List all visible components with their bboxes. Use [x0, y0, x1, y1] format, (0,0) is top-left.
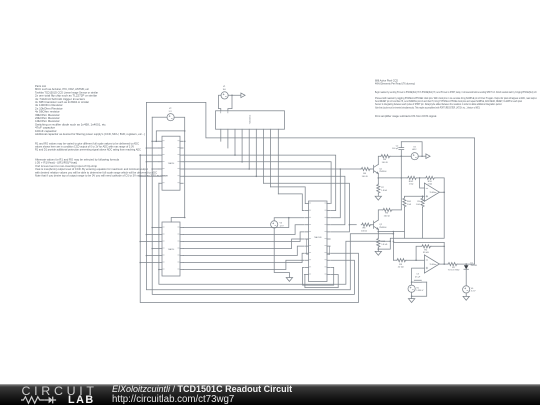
junction V3 rail — [288, 217, 290, 219]
wire bus phase 1 — [183, 155, 336, 211]
svg-text:100 Ω: 100 Ω — [361, 231, 367, 233]
transistor Q2 2N3904 — [371, 220, 378, 229]
wire R8 to Q2 base — [370, 224, 372, 226]
wires IC2 left pins to left bus verticals — [140, 228, 159, 270]
junction non-inverting tap R9 — [422, 196, 424, 198]
svg-text:1.986 V: 1.986 V — [416, 290, 424, 292]
voltage source V6 (3.3V clamp) — [463, 286, 470, 293]
wire hold box top link — [393, 241, 444, 243]
wire feedback riser 39k — [416, 246, 421, 260]
svg-text:3.3 V: 3.3 V — [471, 291, 476, 293]
svg-text:1 kΩ: 1 kΩ — [407, 204, 412, 206]
op-amp U5 TL082 — [424, 183, 439, 201]
CCD bottom pin wires — [221, 129, 278, 194]
svg-text:74AC240: 74AC240 — [314, 236, 322, 239]
note text: first amplifier stage — [375, 115, 437, 118]
svg-text:100 Ω: 100 Ω — [384, 216, 390, 218]
ground for R12 — [375, 251, 381, 255]
voltage probe V4 (ADC) — [411, 153, 418, 160]
svg-text:SH: SH — [223, 89, 226, 91]
wire R7 to ground — [377, 194, 379, 197]
wire V2 left to vertical bus — [152, 116, 167, 118]
svg-text:R1 and D1 provide additional p: R1 and D1 provide additional protection … — [35, 149, 141, 152]
svg-text:100 Ω: 100 Ω — [382, 162, 388, 164]
svg-text:Additional capacitor as desire: Additional capacitor as desired for filt… — [35, 133, 145, 136]
wire RG1 bottom lead — [403, 207, 405, 238]
voltage source V1 (SH clock) — [221, 92, 228, 99]
wire V3 bottom to ground — [274, 228, 289, 278]
wire 12V rail loop W1 — [146, 102, 474, 264]
note text: R1/RG values — [35, 142, 141, 151]
port flag SH — [232, 93, 245, 98]
svg-text:RG2: RG2 — [409, 181, 414, 183]
under-IC rail 1 — [303, 267, 334, 285]
svg-text:5 V: 5 V — [169, 111, 173, 113]
resistor R8 100 Ohm (Q2 base) — [361, 223, 371, 226]
svg-text:TCD1501C: TCD1501C — [249, 114, 251, 124]
hex inverter U3 74AC14 — [162, 222, 180, 276]
svg-text:V3: V3 — [280, 223, 283, 225]
wire riser to inverting input — [420, 178, 425, 188]
svg-text:C3: C3 — [416, 274, 419, 276]
wire R1 to clamp node — [457, 263, 466, 265]
resistor R4 100 Ohm (Q1 collector) — [381, 155, 391, 158]
note text: alternate values formula — [35, 159, 169, 178]
junctions CCD pins to buses — [234, 154, 236, 156]
wire RG2 to R10 — [417, 177, 425, 179]
ground for V5 — [408, 299, 414, 303]
junction inverting input tap — [419, 177, 421, 179]
wire V4 to ADC flag — [418, 155, 426, 157]
wire Q1 emitter — [377, 174, 379, 184]
wire R9 riser top — [422, 196, 424, 197]
wire R4 to ADC node — [390, 155, 411, 157]
ground for R7 — [375, 196, 381, 200]
resistor R9 1k — [421, 198, 424, 208]
wire op-amp1 output and down-link — [378, 192, 444, 249]
svg-text:R9: R9 — [417, 201, 420, 203]
wire bus sample — [183, 169, 361, 218]
wire bus output stage link — [278, 194, 304, 211]
junction feedback tap op-amp2 — [415, 259, 417, 261]
svg-text:V2: V2 — [169, 108, 172, 110]
svg-text:V1: V1 — [223, 86, 226, 88]
svg-text:100 µF: 100 µF — [392, 148, 399, 150]
svg-text:RG1: RG1 — [407, 201, 412, 203]
resistor R10 1k (feedback) — [425, 176, 435, 179]
junction R12 bottom tap — [378, 248, 380, 250]
wire V2 right feed to inverter supplies — [156, 117, 184, 222]
resistor R3 100 Ohm (Q2 collector) — [383, 208, 393, 211]
svg-text:C2: C2 — [396, 145, 399, 147]
svg-text:1.8 kΩ: 1.8 kΩ — [381, 190, 387, 192]
junction loop B to sample-hold box — [393, 233, 395, 235]
svg-text:ADC: ADC — [412, 148, 417, 151]
svg-text:2N3904: 2N3904 — [379, 227, 387, 229]
svg-text:46% Elements Per Read (76 dumm: 46% Elements Per Read (76 dummy) — [375, 83, 415, 86]
svg-text:R5: R5 — [399, 264, 403, 266]
capacitor C3 47uF — [412, 280, 427, 282]
wire C2 loop to V4 output — [401, 142, 422, 156]
wire R3 to sample node — [392, 209, 401, 211]
svg-text:V4: V4 — [413, 146, 416, 148]
wire emitter to RG2 — [378, 177, 407, 179]
junction op-amp2 output — [443, 263, 445, 265]
svg-text:TO 1/3 TBD: TO 1/3 TBD — [448, 270, 460, 272]
svg-text:39 kΩ: 39 kΩ — [423, 252, 429, 254]
svg-text:74AC14: 74AC14 — [168, 162, 175, 165]
svg-text:R4: R4 — [383, 159, 387, 161]
CCD sensor chip U1 TCD1501C — [216, 111, 285, 129]
wire bus reset — [183, 176, 345, 225]
note text: CCD pixel counts — [375, 79, 415, 85]
svg-text:2N3904: 2N3904 — [379, 171, 387, 173]
resistor R1 protection — [448, 263, 458, 266]
wire op-amp2 non-inverting to V5 node — [412, 268, 425, 285]
svg-text:R6: R6 — [363, 173, 367, 175]
wire R6 to Q1 base — [370, 168, 373, 170]
resistor R6 100 Ohm (Q1 base) — [361, 167, 371, 170]
wire V6 to ground — [465, 293, 467, 296]
wire R5 input line — [393, 259, 396, 261]
junction R2 at output riser — [443, 246, 445, 248]
svg-text:R3: R3 — [385, 213, 389, 215]
svg-text:R8: R8 — [363, 228, 367, 230]
svg-text:D1: D1 — [471, 262, 473, 264]
wire loop net C — [152, 117, 354, 294]
wire V3 top to driver IC — [274, 218, 304, 221]
junction op-amp1 output — [443, 191, 445, 193]
svg-text:Begin readout by sending HI le: Begin readout by sending HI level to PHA… — [375, 91, 537, 94]
note text: parts list — [35, 85, 145, 136]
voltage source V3 (12V) — [271, 221, 278, 228]
svg-text:R1: R1 — [452, 267, 456, 269]
resistor RG2 1k — [407, 176, 417, 179]
svg-text:V6: V6 — [471, 288, 474, 290]
junction bus clamp to Q2 base — [349, 224, 351, 226]
resistor RG1 1k — [403, 198, 406, 208]
capacitor C2 100uF with top loop — [399, 142, 404, 156]
svg-text:First amplifier stage subtract: First amplifier stage subtracts DS from … — [375, 115, 437, 118]
svg-text:R7: R7 — [381, 187, 384, 189]
svg-text:20 kΩ: 20 kΩ — [398, 267, 404, 269]
junction emitter line at box leg — [393, 231, 395, 233]
junction clamp node D1 — [465, 263, 467, 265]
wire V1 to CCD chip pins — [219, 95, 233, 111]
resistor R2 39k (feedback) — [421, 245, 431, 248]
note text: readout procedure — [375, 97, 537, 110]
wire V5 to ground — [411, 292, 413, 298]
junction loop D — [390, 241, 392, 243]
junctions IC1 left taps — [151, 141, 153, 143]
ground for V6 — [463, 296, 469, 300]
junction hold box top — [393, 241, 395, 243]
wire R10 to feedback riser — [435, 178, 444, 192]
wire clamp bus to R8 — [349, 224, 356, 226]
resistor R7 1.8k (Q1 emitter) — [377, 184, 380, 194]
svg-text:1 kΩ: 1 kΩ — [416, 204, 421, 206]
wire bus phase 2 — [183, 162, 331, 204]
svg-text:Q1: Q1 — [379, 168, 383, 170]
svg-text:74AC14: 74AC14 — [168, 248, 175, 251]
wire Q2 collector to R3 — [378, 210, 382, 220]
wire loop net B — [146, 102, 393, 289]
svg-text:12 V: 12 V — [280, 225, 285, 227]
wire hold box left leg — [392, 232, 394, 261]
wire Q1 collector to R4 — [378, 156, 380, 164]
svg-text:Q2: Q2 — [379, 224, 383, 226]
wire bus shift gate — [271, 187, 306, 204]
wire loop net A — [140, 155, 358, 302]
junction V2 feed at IC2 top — [184, 217, 186, 219]
wire C3 box right leg — [412, 282, 427, 296]
junction at V4 output — [421, 155, 423, 157]
resistor R12 1.8k (Q2 emitter) — [377, 238, 380, 248]
voltage source V2 (5V logic) — [167, 114, 174, 121]
junction V5 bottom — [411, 295, 413, 297]
svg-text:1 kΩ: 1 kΩ — [409, 184, 414, 186]
svg-text:Note that clocks must be inver: Note that clocks must be inverted simult… — [375, 106, 480, 109]
wires IC1 left pins to left bus verticals — [140, 141, 159, 183]
wire C2 leg down to Q2 collector node — [400, 156, 402, 210]
wire R2 to output riser — [431, 242, 444, 264]
wire Q2 emitter — [377, 230, 379, 238]
voltage source V5 (1.986V reference) — [408, 285, 415, 292]
diode D1 1N4148 — [465, 264, 467, 265]
wire emitter to hold box — [378, 231, 404, 233]
clock driver U4 74AC240 — [309, 201, 328, 282]
wires IC2 right pins to driver IC — [183, 218, 304, 270]
junction bus sample drop — [340, 168, 342, 170]
svg-text:V5: V5 — [416, 287, 419, 289]
wire R5 to op-amp2 inverting input — [406, 259, 424, 261]
junction V5 node — [411, 281, 413, 283]
junctions IC2 left taps — [151, 227, 153, 229]
wire R9 bottom lead — [422, 207, 424, 238]
wire op-amp2 output to R1 — [439, 263, 447, 265]
note text: readout begin — [375, 91, 537, 94]
wire bus clamp — [263, 183, 349, 232]
wire loop net D — [159, 183, 390, 284]
wire non-inverting input network — [404, 196, 424, 197]
hex inverter U2 74AC14 — [162, 136, 180, 190]
junction Q2 emitter line — [378, 231, 380, 233]
svg-text:TL082we: TL082we — [430, 264, 437, 266]
junction ADC node at C2 leg — [401, 155, 403, 157]
junction RG2 line at C2 leg — [401, 177, 403, 179]
junction Q1 emitter to RG2 bus — [378, 177, 380, 179]
svg-text:1N4148: 1N4148 — [471, 265, 477, 267]
wire R12 to ground — [377, 248, 379, 252]
under-IC rail 2 — [304, 275, 338, 288]
svg-text:1.8 kΩ: 1.8 kΩ — [381, 244, 387, 246]
junction at V1 output — [231, 95, 233, 97]
op-amp U6 TL082 — [424, 255, 439, 273]
junction V2 feed at IC1 vcc — [184, 130, 186, 132]
ground for V3 — [286, 278, 292, 282]
svg-text:TL082we: TL082we — [430, 192, 437, 194]
svg-text:R10: R10 — [428, 181, 433, 183]
resistor R5 20k — [396, 259, 406, 262]
svg-text:100 Ω: 100 Ω — [362, 176, 368, 178]
transistor Q1 2N3904 — [371, 164, 378, 173]
port flag ADC — [426, 154, 430, 159]
svg-text:R2: R2 — [424, 249, 428, 251]
svg-text:47 µF: 47 µF — [415, 276, 421, 278]
